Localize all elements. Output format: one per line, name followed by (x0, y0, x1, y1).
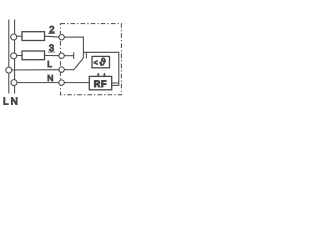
svg-text:L: L (3, 96, 9, 107)
terminal 2 circle (59, 35, 64, 40)
junction circle on N rail row2 (11, 34, 17, 40)
enclosure receiver unit dash-dot box (60, 24, 121, 95)
junction circle on L rail rowL (6, 67, 12, 73)
module outline top and right edges with bottom stub (83, 52, 118, 85)
wire terminal L to switch arm pivot (62, 69, 74, 71)
junction circle on N rail row3 (11, 53, 17, 59)
wire row2 junction to load R1 (15, 35, 22, 37)
terminal N circle (59, 80, 64, 85)
junction circle on N rail rowN (11, 80, 17, 86)
wire N rail vertical (14, 20, 16, 94)
resistor R1 (load to terminal 2) (22, 32, 45, 41)
resistor R2 (load to terminal 3) (22, 51, 45, 60)
terminal L circle (59, 67, 64, 72)
antenna arrow left (97, 73, 100, 78)
svg-text:RF: RF (94, 79, 107, 89)
antenna arrow right (103, 73, 106, 78)
wire RF box to module right edge (112, 82, 119, 84)
switch arm relay contact (74, 58, 84, 70)
underline of label 2 (48, 32, 55, 34)
thermostat box (<theta icon) (92, 56, 110, 67)
svg-text:L: L (47, 59, 52, 69)
wire R1 to terminal 2 (45, 36, 62, 37)
svg-text:<: < (94, 60, 98, 67)
wire N rail to terminal N (15, 82, 62, 84)
wire L rail to terminal L (9, 69, 62, 71)
terminal 3 circle (59, 53, 64, 58)
contact tick fixed contact of relay (73, 52, 75, 59)
svg-text:N: N (11, 96, 18, 107)
underline of label 3 (48, 51, 55, 53)
wire R2 to terminal 3 (45, 55, 62, 57)
wire terminal 2 to switch vertical (62, 37, 84, 58)
wire L rail vertical (8, 20, 10, 94)
svg-text:N: N (47, 73, 53, 83)
wire row3 junction to load R2 (15, 55, 22, 57)
wire terminal N to RF box (62, 82, 90, 84)
svg-text:ϑ: ϑ (100, 58, 106, 69)
module outline left stub (85, 52, 87, 58)
RF box radio module (89, 76, 111, 89)
wire terminal 3 to fixed contact (62, 55, 74, 57)
